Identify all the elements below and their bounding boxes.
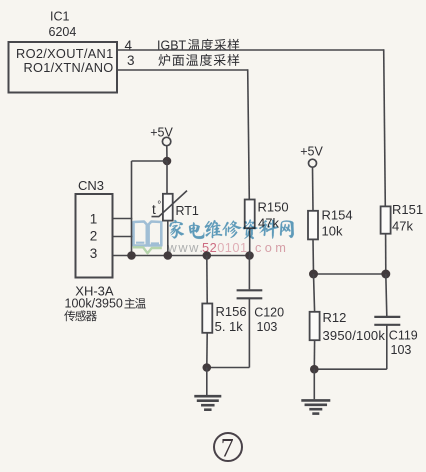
- node net at R156: [203, 251, 212, 260]
- svg-text:1: 1: [90, 212, 98, 227]
- wire RT1 bottom to net: [167, 221, 169, 256]
- node divider left: [309, 270, 318, 279]
- svg-text:+5V: +5V: [150, 126, 173, 140]
- svg-text:C120: C120: [254, 306, 284, 320]
- node ground junction left: [203, 363, 212, 372]
- thermistor RT1: [152, 191, 199, 221]
- svg-text:5. 1k: 5. 1k: [215, 319, 244, 334]
- figure number 7 in circle: [214, 433, 242, 462]
- wire divider rail: [314, 273, 386, 275]
- resistor R150 47k: [245, 200, 289, 231]
- svg-text:47k: 47k: [392, 219, 413, 234]
- wire R150 bottom to net: [249, 228, 251, 255]
- wire to ground right: [313, 369, 315, 399]
- node ground junction right: [310, 365, 319, 374]
- svg-text:2: 2: [90, 229, 98, 244]
- ground (left): [194, 396, 221, 410]
- wire net to R156 top: [206, 256, 208, 304]
- svg-text:t: t: [152, 202, 156, 217]
- node net at R150/C120: [245, 251, 254, 260]
- svg-text:103: 103: [257, 320, 278, 334]
- resistor R154 10k: [308, 208, 353, 240]
- power +5V supply (left): [150, 126, 173, 162]
- svg-text:IC1: IC1: [50, 10, 70, 24]
- node net at +5V column: [127, 251, 136, 260]
- svg-text:R151: R151: [392, 202, 423, 217]
- wire R154 bottom to node: [312, 239, 315, 274]
- wire CN3 pin2: [113, 236, 133, 238]
- svg-text:3950/100k: 3950/100k: [323, 328, 386, 343]
- svg-text:R156: R156: [216, 304, 247, 319]
- svg-text:CN3: CN3: [78, 178, 104, 193]
- svg-text:6204: 6204: [49, 25, 77, 39]
- wire R156 bottom to ground node: [206, 333, 208, 368]
- wire IC1 pin3 to R150 top: [117, 69, 249, 200]
- wire CN3 pin3 main net: [113, 255, 250, 257]
- wire CN3 pin1: [113, 218, 133, 220]
- pin 4 label and net name IGBT温度采样: [125, 38, 240, 53]
- power +5V supply (right): [300, 145, 323, 211]
- svg-text:.com: .com: [248, 240, 289, 255]
- svg-text:+5V: +5V: [300, 145, 323, 159]
- svg-text:103: 103: [391, 343, 412, 357]
- svg-text:R150: R150: [258, 200, 289, 215]
- node divider right: [381, 270, 390, 279]
- ground (right): [301, 400, 330, 413]
- capacitor C120 103: [207, 256, 284, 368]
- svg-text:RO1/XTN/ANO: RO1/XTN/ANO: [23, 60, 113, 75]
- wire to ground left: [206, 368, 208, 396]
- wire R151 bottom to node: [385, 234, 387, 274]
- svg-text:7: 7: [221, 433, 234, 462]
- svg-text:RT1: RT1: [176, 204, 199, 218]
- svg-text:3: 3: [127, 53, 135, 68]
- svg-text:52: 52: [202, 240, 217, 255]
- node net at RT1: [164, 251, 173, 260]
- IC IC1 6204 pin box: [9, 10, 118, 93]
- resistor R12 3950/100k: [310, 310, 386, 343]
- svg-text:RO2/XOUT/AN1: RO2/XOUT/AN1: [16, 46, 113, 61]
- wire R12 bottom to ground node: [313, 340, 315, 369]
- resistor R156 5.1k: [202, 304, 246, 335]
- resistor R151 47k: [381, 202, 423, 234]
- node +5V branch junction: [163, 157, 172, 166]
- wire +5V junction to RT1 top: [166, 161, 168, 194]
- svg-text:100k/3950: 100k/3950: [65, 297, 123, 311]
- wire +5V junction left and down to CN3 net: [132, 161, 168, 256]
- svg-text:3: 3: [90, 246, 98, 261]
- svg-text:C119: C119: [389, 329, 418, 343]
- capacitor C119 103: [314, 274, 418, 369]
- wire node to R12 top: [314, 274, 315, 312]
- svg-text:10k: 10k: [322, 224, 343, 239]
- svg-text:0101: 0101: [217, 240, 247, 255]
- pin 3 label and net name 炉面温度采样: [127, 53, 239, 68]
- connector CN3 (XH-3A): [64, 178, 146, 321]
- svg-text:R12: R12: [323, 310, 347, 325]
- svg-text:www.: www.: [167, 240, 205, 255]
- svg-text:°: °: [157, 200, 161, 211]
- svg-text:R154: R154: [322, 208, 353, 223]
- wire IC1 pin4 to R151 top: [117, 49, 385, 206]
